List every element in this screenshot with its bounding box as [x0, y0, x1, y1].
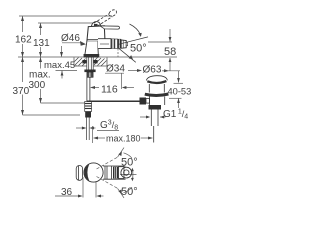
arc arrow from lever	[130, 24, 141, 35]
deck surface line	[18, 56, 177, 58]
deck clamp washers	[82, 60, 86, 63]
body top view	[103, 166, 132, 179]
max45 leader tick	[74, 65, 77, 67]
dim 116	[90, 73, 134, 89]
rod knob	[140, 98, 147, 105]
extension line top (lever raised height)	[19, 15, 112, 17]
max45 lower ref line	[56, 69, 78, 71]
thin pipe below nut	[87, 118, 90, 141]
svg-text:50°: 50°	[130, 43, 147, 55]
mounting nut	[87, 72, 93, 77]
dim 58	[148, 29, 172, 71]
drain flange	[145, 76, 169, 143]
svg-text:300: 300	[29, 80, 46, 91]
lower spray line	[118, 47, 136, 62]
svg-text:131: 131	[33, 38, 50, 49]
supply pipe	[87, 77, 90, 101]
lower line arrow	[129, 55, 133, 59]
dashed swing line lower	[97, 177, 119, 189]
svg-text:Ø46: Ø46	[61, 33, 80, 44]
ref line y98	[169, 97, 182, 99]
dim 36	[55, 177, 104, 198]
deck hatched section left	[74, 58, 87, 67]
svg-text:370: 370	[13, 86, 30, 97]
G3/8 hose nut	[85, 102, 92, 118]
lever dashed raised	[94, 9, 118, 26]
spout inner line	[100, 43, 109, 45]
G3/8 dia arrows	[76, 127, 82, 129]
pop-up rod	[87, 100, 140, 102]
ext line hose bottom (370)	[23, 114, 81, 116]
dashed swing line upper	[97, 148, 134, 198]
dim max.180	[93, 137, 153, 140]
tail pipe ext	[153, 126, 155, 143]
tail pipe	[150, 110, 152, 127]
ref line y83	[174, 82, 184, 84]
rod stub	[146, 99, 150, 104]
spout	[98, 39, 111, 49]
svg-text:max.45: max.45	[44, 60, 75, 71]
svg-text:50°: 50°	[121, 157, 138, 169]
faucet side view	[84, 9, 128, 57]
extension line (faucet body top)	[38, 22, 93, 24]
dim 131 line	[40, 23, 42, 57]
dim 370 line	[22, 57, 24, 115]
spout aerator dark rings	[111, 39, 115, 49]
ext line from O34	[121, 73, 123, 89]
svg-text:Ø63: Ø63	[143, 65, 162, 76]
lower ring	[145, 94, 169, 95]
dim 162 line	[22, 16, 24, 57]
flange neck	[149, 84, 164, 93]
dim max45 top arrow	[61, 46, 63, 57]
drain body	[150, 97, 165, 106]
angle arc across centerline	[131, 170, 134, 180]
svg-text:162: 162	[15, 35, 32, 46]
body column	[85, 41, 98, 54]
centerline	[120, 173, 137, 175]
dim max300 line	[40, 57, 42, 103]
head box	[87, 26, 105, 42]
dashed axis above O34	[117, 49, 119, 58]
cartridge nub	[94, 24, 98, 27]
tip nub	[126, 42, 128, 46]
svg-text:max.180: max.180	[106, 134, 141, 144]
50 deg spray angle upper line	[118, 24, 149, 62]
svg-text:116: 116	[101, 83, 118, 95]
ext line y42	[148, 41, 172, 43]
max180 left ext	[92, 126, 94, 143]
handle dome	[91, 22, 101, 27]
lever bar	[100, 26, 120, 29]
flange top ext line	[162, 70, 180, 72]
shank washer flange	[84, 70, 95, 73]
svg-text:50°: 50°	[121, 186, 138, 198]
dim 40-53	[169, 71, 183, 108]
head inner line	[87, 39, 105, 41]
base plinth	[84, 54, 99, 57]
svg-text:36: 36	[61, 187, 73, 198]
spout tip	[121, 40, 126, 48]
end cap with circles	[121, 167, 132, 178]
shank hole lines	[87, 57, 93, 69]
svg-text:40-53: 40-53	[168, 86, 192, 96]
O46 leader	[62, 42, 81, 44]
ext line max300 bottom	[41, 102, 87, 104]
crescent shading	[84, 164, 89, 181]
handle circle	[84, 163, 103, 182]
lever tip capsule	[76, 166, 82, 181]
svg-text:58: 58	[164, 46, 176, 58]
svg-text:max.: max.	[29, 70, 51, 81]
deck hatched section right	[94, 58, 108, 67]
